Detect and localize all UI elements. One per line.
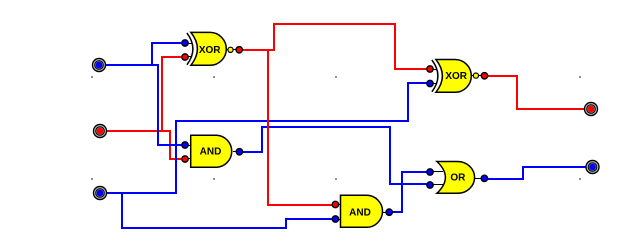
node OR1.A (blue) xyxy=(427,169,433,175)
input terminal 3 (blue) xyxy=(93,186,106,199)
wire net B branch to XOR1.B xyxy=(162,57,185,131)
node XOR1.A (blue) xyxy=(182,40,188,46)
AND1 body xyxy=(191,135,232,167)
wire OR output to output2 (blue) xyxy=(485,167,593,179)
svg-text:XOR: XOR xyxy=(199,45,221,56)
XOR2 extra input arc xyxy=(432,60,438,92)
op gate XOR1 xyxy=(185,32,240,65)
input terminal 1 (blue) xyxy=(92,58,105,71)
grid dot r2c3 xyxy=(335,178,337,180)
output terminal 2 (blue) xyxy=(586,160,599,173)
XOR1 output stub xyxy=(226,49,240,51)
node XOR1.out (red) xyxy=(236,47,242,53)
grid dot r1c2 xyxy=(213,76,215,78)
output terminal 1 (red) xyxy=(584,102,597,115)
node XOR2.out (red) xyxy=(481,73,487,79)
grid dot r1c3 xyxy=(335,76,337,78)
gate AND1 xyxy=(185,135,240,167)
XOR2 input stub A xyxy=(430,69,437,71)
wire XOR2 output to output1 (red) xyxy=(485,76,591,109)
AND2 output stub xyxy=(383,212,390,214)
wire net A branch to XOR1.A xyxy=(152,43,185,65)
wire XOR1 output to XOR2.A (red) xyxy=(240,24,430,69)
XOR2 body xyxy=(436,60,471,93)
OR1 body xyxy=(437,162,475,194)
AND1 input stub A xyxy=(185,145,192,147)
OR1 input stub B xyxy=(430,184,443,186)
node OR1.out (blue) xyxy=(481,175,487,181)
grid dot r1c1 xyxy=(91,76,93,78)
AND1 output stub xyxy=(233,151,240,153)
wire net B: input2 to XOR1.B and AND1.B (red) xyxy=(100,131,185,159)
svg-text:XOR: XOR xyxy=(445,71,467,82)
wire net C: input3 to XOR2.B (blue) xyxy=(100,83,430,193)
XOR1 input stub B xyxy=(185,56,192,58)
wire net C branch to AND2.B xyxy=(122,193,335,228)
XOR1 extra input arc xyxy=(187,33,193,65)
wire XOR1 output branch to AND2.A (red) xyxy=(268,50,336,205)
grid dot r1c5 xyxy=(579,76,581,78)
OR1 output stub xyxy=(475,178,485,180)
grid dot r2c5 xyxy=(579,178,581,180)
wire AND1 output to OR.B (blue) xyxy=(239,127,430,184)
svg-text:OR: OR xyxy=(450,172,466,183)
gate AND2 xyxy=(335,195,389,227)
node AND1.out (blue) xyxy=(236,149,242,155)
node AND1.B (red) xyxy=(182,156,188,162)
grid dot r2c2 xyxy=(213,178,215,180)
XOR1 body xyxy=(191,32,226,65)
input terminal 2 (red) xyxy=(93,124,106,137)
XOR2 input stub B xyxy=(430,83,437,85)
node XOR2.B (blue) xyxy=(427,80,433,86)
svg-text:AND: AND xyxy=(349,207,371,218)
node AND2.B (blue) xyxy=(332,216,338,222)
AND2 body xyxy=(341,195,383,227)
node AND2.out (blue) xyxy=(386,209,392,215)
OR1 input stub A xyxy=(430,171,443,173)
AND1 input stub B xyxy=(185,158,192,160)
node OR1.B (blue) xyxy=(427,182,433,188)
wire AND2 output to OR.A (blue) xyxy=(389,172,430,212)
grid dot r2c1 xyxy=(91,178,93,180)
svg-text:AND: AND xyxy=(200,146,222,157)
node AND2.A (red) xyxy=(332,201,338,207)
AND2 input stub A xyxy=(335,204,341,206)
wire net A: input1 to XOR1.A and AND1.A (blue) xyxy=(99,65,185,145)
gate OR1 xyxy=(430,162,484,194)
node XOR2.A (red) xyxy=(427,66,433,72)
gate XOR2 xyxy=(430,60,485,93)
AND2 input stub B xyxy=(335,219,341,221)
node AND1.A (blue) xyxy=(182,142,188,148)
XOR1 input stub A xyxy=(185,43,192,45)
XOR2 output stub xyxy=(471,75,485,77)
XOR1 output bubble circle xyxy=(228,47,233,52)
XOR2 output bubble circle xyxy=(473,73,478,78)
node XOR1.B (red) xyxy=(182,54,188,60)
